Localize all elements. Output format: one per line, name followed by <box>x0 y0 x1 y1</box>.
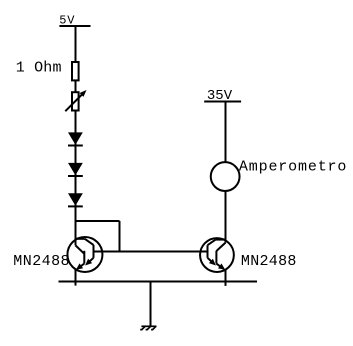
diode D1 <box>68 132 83 144</box>
transistor Q1 MN2488 (left darlington) <box>67 237 102 272</box>
arrow emitter Q1 inner <box>85 259 92 266</box>
transistor Q2 MN2488 (right darlington) <box>200 238 234 272</box>
power rail 5V <box>59 25 90 27</box>
wire resistor to rheostat <box>75 80 77 92</box>
wire base bus between transistors <box>94 251 208 253</box>
svg-text:MN2488: MN2488 <box>241 253 297 270</box>
svg-text:MN2488: MN2488 <box>13 253 70 270</box>
arrow emitter Q2 inner <box>209 259 216 266</box>
diode D2 <box>68 163 83 175</box>
svg-text:1 Ohm: 1 Ohm <box>16 59 62 76</box>
wire rail to ground <box>150 282 152 327</box>
resistor R1 1 Ohm <box>72 62 79 80</box>
diode D3 <box>68 193 83 205</box>
ammeter M1 <box>211 162 240 191</box>
rheostat RV1 body <box>72 92 79 110</box>
arrow emitter Q2 outer <box>218 264 225 270</box>
wire collector-base tie horizontal <box>76 220 120 222</box>
emitter rail <box>59 281 258 283</box>
wire 35V rail to ammeter <box>225 101 227 162</box>
wire 5V rail to resistor <box>75 26 77 62</box>
power rail 35V <box>204 100 241 102</box>
rheostat RV1 arrow <box>65 94 82 111</box>
wire ammeter to Q2 collector <box>225 191 227 243</box>
wire rheostat to transistor Q1 collector <box>75 111 77 246</box>
wire emitter Q1 to rail <box>75 270 77 286</box>
arrow emitter Q1 outer <box>76 263 83 270</box>
svg-text:Amperometro: Amperometro <box>239 159 347 176</box>
wire collector-base tie vertical <box>119 221 121 252</box>
wire emitter Q2 to rail <box>225 270 227 286</box>
ground <box>140 326 156 329</box>
